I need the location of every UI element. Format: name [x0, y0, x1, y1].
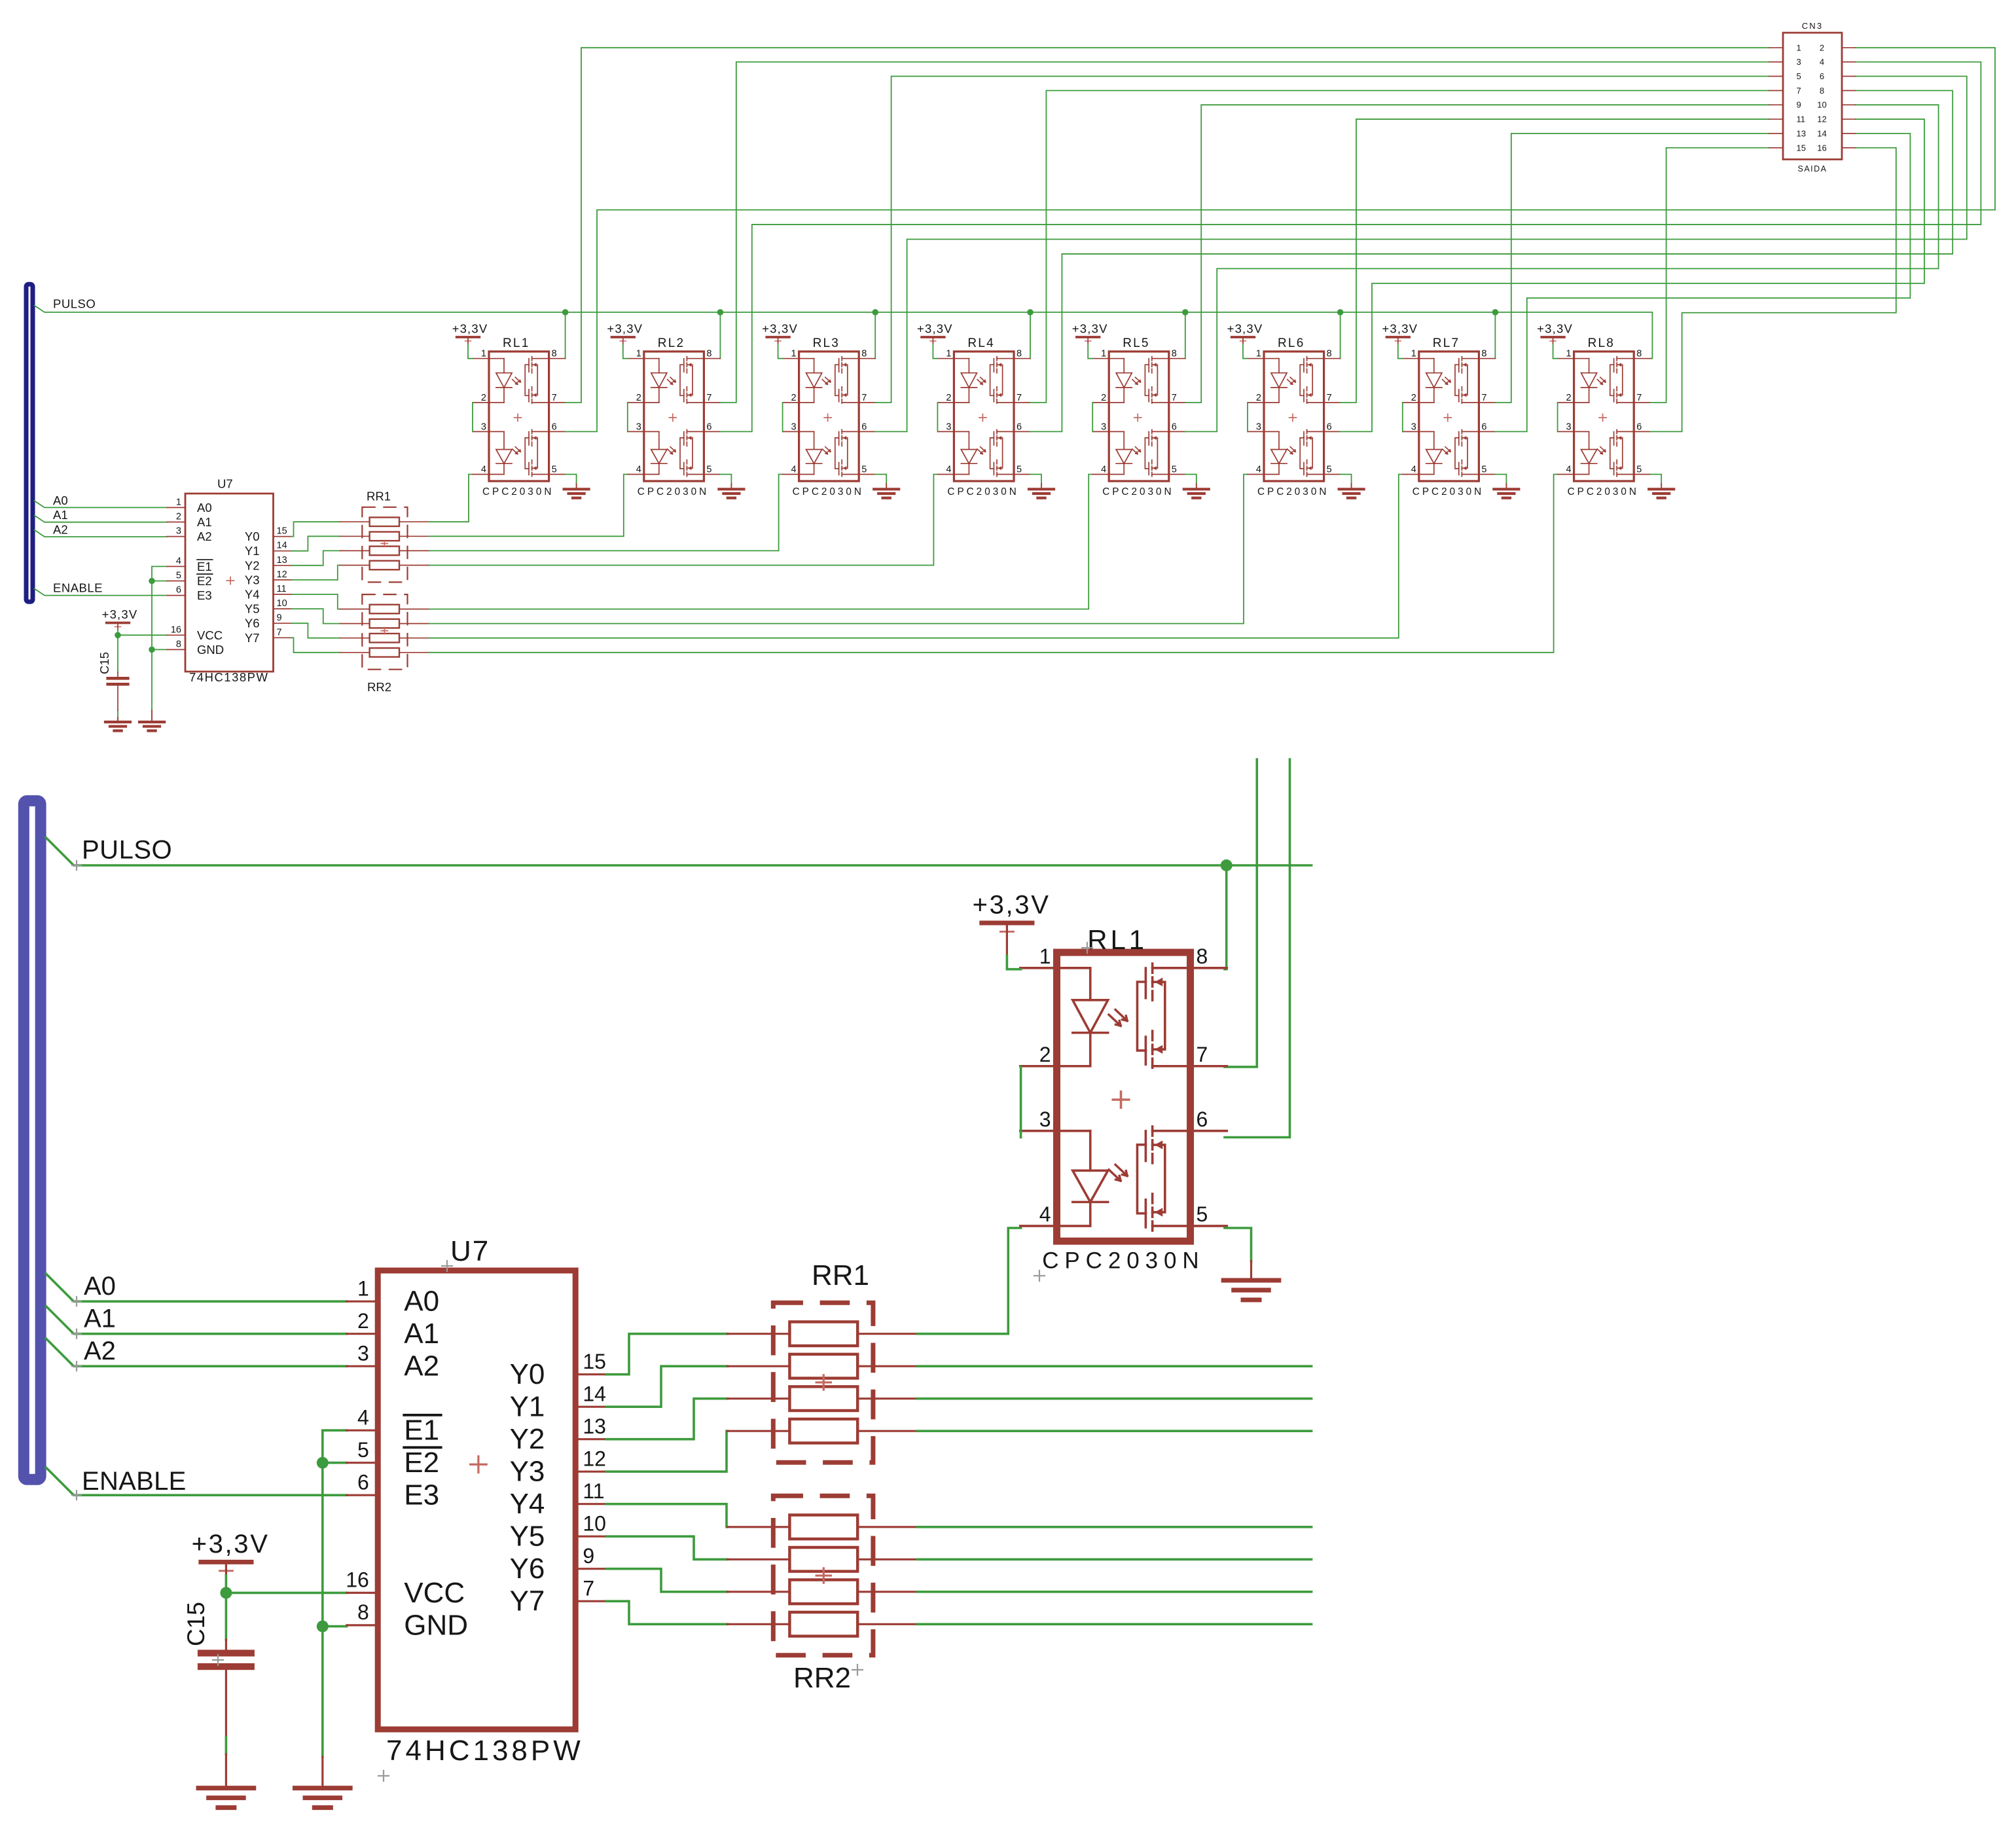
wire net Y7 U7 to RR (top) — [292, 638, 340, 653]
optocoupler relay RL8 (top) — [1558, 336, 1651, 497]
svg-text:Y4: Y4 — [510, 1488, 545, 1520]
wire net Y6 U7 to RR (bottom) — [606, 1569, 727, 1592]
svg-text:Y0: Y0 — [245, 530, 260, 543]
svg-text:8: 8 — [706, 349, 711, 359]
svg-text:2: 2 — [357, 1309, 369, 1333]
wire net Y5 U7 to RR (bottom) — [606, 1536, 727, 1559]
svg-text:RL1: RL1 — [1087, 924, 1147, 955]
ground G1 under C15 (top) — [105, 717, 130, 730]
optocoupler relay RL2 (top) — [628, 336, 721, 497]
wire RL6 pin7 to CN3 (top) — [1341, 119, 1769, 403]
wire PULSO drop to RL7 pin8 (top) — [1494, 312, 1496, 359]
wire C15 top lead (top) — [117, 635, 118, 672]
svg-text:Y6: Y6 — [510, 1553, 545, 1585]
connector CN3 (top) — [1769, 33, 1856, 160]
svg-text:8: 8 — [1636, 349, 1642, 359]
wire E1-E2-GND tie (bottom) — [323, 1430, 347, 1757]
C15 upper stub (top) — [117, 672, 118, 677]
wire +3,3V to RL1 pin1 (bottom) — [1007, 956, 1020, 969]
resistor network RR2 (top) — [340, 594, 429, 694]
svg-text:RR1: RR1 — [812, 1259, 869, 1291]
wire net Y3 U7 to RR (top) — [292, 566, 340, 580]
svg-text:12: 12 — [583, 1447, 606, 1470]
wire RL4 pins2-3 jumper (top) — [937, 403, 938, 431]
optocoupler relay RL7 (top) — [1403, 336, 1496, 497]
wire net A0 from bus to U7 (top) — [35, 501, 167, 507]
svg-text:16: 16 — [171, 624, 181, 635]
wire RL8 pins2-3 jumper (top) — [1557, 403, 1558, 431]
wire net Y1 U7 to RR (bottom) — [606, 1366, 727, 1407]
wire RL5 pin7 to CN3 (top) — [1185, 105, 1769, 403]
+3,3V supply PS7 at RL7 (top) — [1382, 322, 1418, 345]
svg-text:2: 2 — [1101, 393, 1106, 403]
svg-text:4: 4 — [481, 465, 486, 475]
svg-text:2: 2 — [1411, 393, 1416, 403]
ground G4 at RL2 (top) — [719, 484, 744, 498]
wire RL3 pin5 to ground (top) — [875, 475, 886, 484]
svg-text:6: 6 — [1017, 422, 1022, 432]
svg-text:15: 15 — [583, 1350, 606, 1373]
svg-text:3: 3 — [176, 526, 181, 537]
wire net R1 RR output to RL2 pin4 (top) — [429, 475, 628, 537]
wire +3,3V to RL6 pin1 (top) — [1243, 344, 1248, 359]
wire RL4 pin7 to CN3 (top) — [1030, 90, 1769, 403]
wire RL3 pin7 to CN3 (top) — [875, 77, 1769, 403]
svg-text:7: 7 — [1327, 393, 1332, 403]
capacitor C15 (top) — [98, 652, 130, 686]
svg-text:Y7: Y7 — [510, 1585, 545, 1617]
+3,3V supply PS1 at RL1 (bottom) — [973, 891, 1051, 956]
svg-text:CPC2030N: CPC2030N — [1257, 486, 1329, 497]
svg-text:13: 13 — [277, 555, 287, 566]
junction junction VCC (top) — [115, 632, 121, 639]
svg-text:5: 5 — [1327, 465, 1332, 475]
svg-text:+3,3V: +3,3V — [192, 1530, 270, 1559]
ground G3 at RL1 (bottom) — [1223, 1261, 1279, 1300]
ground G1 under C15 (bottom) — [198, 1754, 254, 1808]
wire net Y1 U7 to RR (top) — [292, 536, 340, 550]
svg-text:15: 15 — [1797, 143, 1806, 153]
svg-text:7: 7 — [1196, 1043, 1208, 1066]
wire net A2 from bus (bottom) — [46, 1339, 346, 1366]
svg-text:4: 4 — [946, 465, 951, 475]
junction junction GND pin (bottom) — [317, 1621, 329, 1632]
wire RL6 pins2-3 jumper (top) — [1247, 403, 1248, 431]
svg-text:5: 5 — [1481, 465, 1486, 475]
svg-text:1: 1 — [176, 497, 181, 507]
svg-text:2: 2 — [481, 393, 486, 403]
svg-text:E2: E2 — [197, 574, 212, 588]
svg-text:6: 6 — [552, 422, 557, 432]
+3,3V supply PS9 at C15 (top) — [102, 607, 138, 630]
ground G9 at RL7 (top) — [1494, 484, 1519, 498]
+3,3V supply PS1 at RL1 (top) — [452, 322, 488, 345]
svg-text:5: 5 — [1196, 1202, 1208, 1226]
junction PULSO junction (bottom) — [1221, 859, 1233, 871]
svg-text:2: 2 — [176, 512, 181, 522]
svg-text:11: 11 — [277, 584, 287, 594]
wire RL2 pin6 loop via CN3 (top) — [720, 62, 1981, 432]
svg-text:3: 3 — [1039, 1108, 1051, 1131]
wire PULSO from bus to RL8 pin8 (top) — [35, 306, 1653, 359]
svg-text:1: 1 — [1566, 349, 1572, 359]
wire net Y7 U7 to RR (bottom) — [606, 1601, 727, 1624]
resistor network RR1 (bottom) — [727, 1259, 917, 1462]
svg-text:A2: A2 — [197, 530, 212, 543]
svg-text:7: 7 — [1797, 86, 1801, 96]
svg-text:4: 4 — [636, 465, 641, 475]
svg-text:14: 14 — [1817, 128, 1826, 138]
svg-text:2: 2 — [1256, 393, 1261, 403]
svg-text:RL5: RL5 — [1123, 336, 1149, 350]
svg-text:6: 6 — [1327, 422, 1332, 432]
svg-text:A2: A2 — [404, 1350, 439, 1382]
wire RL1 pin5 to ground (top) — [566, 475, 577, 484]
svg-text:5: 5 — [357, 1438, 369, 1462]
svg-text:3: 3 — [946, 422, 951, 432]
svg-text:A1: A1 — [53, 508, 68, 522]
svg-text:7: 7 — [583, 1576, 594, 1600]
+3,3V supply PS3 at RL3 (top) — [762, 322, 798, 345]
svg-text:1: 1 — [1411, 349, 1416, 359]
svg-text:12: 12 — [277, 569, 287, 580]
ground G5 at RL3 (top) — [874, 484, 899, 498]
wire net R0 RR1 out to RL1 pin4 (bottom) — [918, 1228, 1021, 1334]
svg-text:C15: C15 — [183, 1602, 209, 1646]
wire PULSO drop to RL3 pin8 (top) — [874, 312, 876, 359]
svg-text:8: 8 — [1017, 349, 1022, 359]
svg-text:1: 1 — [1797, 43, 1801, 52]
svg-text:3: 3 — [1256, 422, 1261, 432]
origin cross PULSO (bottom) — [72, 861, 81, 870]
wire RL2 pin7 vertical (bottom) — [1225, 759, 1257, 1067]
svg-text:A0: A0 — [197, 501, 212, 514]
svg-text:5: 5 — [1172, 465, 1177, 475]
wire RL1 pins2-3 jumper (top) — [472, 403, 473, 431]
wire +3,3V to RL1 pin1 (top) — [468, 344, 473, 359]
wire net Y4 U7 to RR (top) — [292, 594, 340, 609]
svg-text:Y4: Y4 — [245, 588, 260, 602]
optocoupler relay RL3 (top) — [783, 336, 876, 497]
svg-text:+3,3V: +3,3V — [452, 322, 488, 336]
svg-text:3: 3 — [791, 422, 797, 432]
wire RL8 pin5 to ground (top) — [1650, 475, 1661, 484]
ground G2 for enable tie (top) — [139, 710, 164, 730]
svg-text:+3,3V: +3,3V — [1382, 322, 1418, 336]
svg-text:6: 6 — [176, 585, 181, 596]
svg-text:10: 10 — [277, 598, 287, 609]
svg-text:11: 11 — [1797, 115, 1806, 124]
wire RL7 pins2-3 jumper (top) — [1402, 403, 1403, 431]
svg-text:12: 12 — [1817, 115, 1826, 124]
origin cross C15 (bottom) — [213, 1655, 223, 1665]
wire RL1 pins2-3 jumper (bottom) — [1020, 1067, 1022, 1138]
svg-text:3: 3 — [1411, 422, 1416, 432]
svg-text:Y1: Y1 — [245, 544, 260, 558]
svg-text:RL7: RL7 — [1433, 336, 1460, 350]
svg-text:+3,3V: +3,3V — [1072, 322, 1108, 336]
origin cross ENABLE (bottom) — [72, 1490, 81, 1500]
svg-text:2: 2 — [946, 393, 951, 403]
wire PULSO drop to RL2 pin8 (top) — [719, 312, 721, 359]
wire net Y2 U7 to RR (top) — [292, 550, 340, 565]
svg-text:1: 1 — [1039, 945, 1051, 968]
wire VCC wire (top) — [118, 630, 167, 635]
svg-text:Y2: Y2 — [245, 558, 260, 572]
+3,3V supply PS9 at C15 (bottom) — [192, 1530, 270, 1578]
wire +3,3V to RL8 pin1 (top) — [1553, 344, 1558, 359]
svg-text:ENABLE: ENABLE — [82, 1467, 187, 1496]
svg-text:CN3: CN3 — [1802, 21, 1824, 31]
svg-text:CPC2030N: CPC2030N — [947, 486, 1018, 497]
svg-text:8: 8 — [1820, 86, 1824, 96]
wire RL1 pin5 to ground (bottom) — [1225, 1228, 1251, 1261]
optocoupler relay RL4 (top) — [937, 336, 1030, 497]
svg-text:Y3: Y3 — [510, 1456, 545, 1488]
svg-text:2: 2 — [791, 393, 797, 403]
bus B1 (top) — [26, 284, 33, 602]
C15 upper stub (bottom) — [225, 1640, 227, 1650]
wire net Y3 U7 to RR (bottom) — [606, 1431, 727, 1471]
wire RL2 pin5 to ground (top) — [720, 475, 731, 484]
wire RL2 pin7 to CN3 (top) — [720, 62, 1769, 403]
wire net R6 RR output to RL7 pin4 (top) — [429, 475, 1403, 638]
svg-text:10: 10 — [1817, 100, 1826, 110]
svg-text:9: 9 — [583, 1544, 594, 1568]
wire net R2 RR out heading right (bottom) — [918, 1397, 1312, 1400]
wire E1-E2-GND tie (top) — [152, 566, 167, 710]
svg-text:E3: E3 — [404, 1479, 439, 1511]
svg-text:2: 2 — [1820, 43, 1824, 52]
wire net Y0 U7 to RR (top) — [292, 522, 340, 536]
svg-text:8: 8 — [176, 639, 181, 649]
svg-text:6: 6 — [1636, 422, 1642, 432]
wire RL2 pins2-3 jumper (top) — [627, 403, 628, 431]
wire net Y2 U7 to RR (bottom) — [606, 1399, 727, 1439]
svg-text:E1: E1 — [404, 1415, 439, 1447]
svg-text:7: 7 — [552, 393, 557, 403]
svg-text:6: 6 — [1172, 422, 1177, 432]
+3,3V supply PS8 at RL8 (top) — [1537, 322, 1573, 345]
wire PULSO from bus (bottom) — [46, 838, 1311, 865]
svg-text:4: 4 — [1566, 465, 1572, 475]
ground G6 at RL4 (top) — [1029, 484, 1054, 498]
svg-text:16: 16 — [346, 1568, 369, 1591]
svg-text:RL6: RL6 — [1278, 336, 1305, 350]
svg-text:9: 9 — [277, 613, 282, 623]
svg-text:1: 1 — [481, 349, 486, 359]
wire RL2 pin6 vertical (bottom) — [1225, 759, 1290, 1138]
svg-text:8: 8 — [1327, 349, 1332, 359]
svg-text:PULSO: PULSO — [53, 297, 96, 311]
svg-text:1: 1 — [946, 349, 951, 359]
svg-text:E3: E3 — [197, 588, 212, 602]
svg-text:CPC2030N: CPC2030N — [482, 486, 554, 497]
svg-text:3: 3 — [1101, 422, 1106, 432]
svg-text:GND: GND — [404, 1609, 468, 1641]
origin cross 74HC138PW (bottom) — [378, 1771, 389, 1781]
svg-text:14: 14 — [277, 541, 287, 551]
wire +3,3V to RL5 pin1 (top) — [1088, 344, 1092, 359]
wire RL4 pin6 loop via CN3 (top) — [1030, 90, 1953, 431]
svg-text:A1: A1 — [404, 1318, 439, 1350]
svg-text:7: 7 — [861, 393, 867, 403]
optocoupler relay RL5 (top) — [1092, 336, 1185, 497]
ground G3 at RL1 (top) — [564, 484, 589, 498]
svg-text:4: 4 — [1411, 465, 1416, 475]
origin cross RL1 (bottom) — [1082, 943, 1092, 953]
optocoupler relay RL1 (top) — [473, 336, 566, 497]
svg-text:7: 7 — [277, 627, 282, 638]
svg-text:5: 5 — [861, 465, 867, 475]
wire RL6 pin6 loop via CN3 (top) — [1341, 119, 1924, 431]
svg-text:RR1: RR1 — [367, 489, 391, 503]
svg-text:13: 13 — [583, 1415, 606, 1438]
svg-text:+3,3V: +3,3V — [762, 322, 798, 336]
junction junction E2 (top) — [149, 578, 155, 585]
svg-text:5: 5 — [552, 465, 557, 475]
svg-text:5: 5 — [176, 571, 181, 581]
svg-text:RL3: RL3 — [813, 336, 840, 350]
svg-text:74HC138PW: 74HC138PW — [386, 1735, 584, 1767]
junction PULSO junction at RL1 (top) — [562, 309, 569, 316]
svg-text:A1: A1 — [84, 1305, 116, 1333]
junction junction VCC (bottom) — [220, 1587, 232, 1598]
svg-text:3: 3 — [1566, 422, 1572, 432]
svg-text:PULSO: PULSO — [82, 836, 172, 865]
svg-text:15: 15 — [277, 526, 287, 537]
optocoupler relay RL6 (top) — [1248, 336, 1341, 497]
resistor network RR2 (bottom) — [727, 1496, 917, 1694]
svg-text:RL8: RL8 — [1588, 336, 1615, 350]
wire net R0 RR output to RL1 pin4 (top) — [429, 475, 473, 522]
junction PULSO junction at RL6 (top) — [1337, 309, 1344, 316]
svg-text:CPC2030N: CPC2030N — [1568, 486, 1639, 497]
wire RL3 pins2-3 jumper (top) — [782, 403, 783, 431]
wire RL1 pin6 loop via CN3 (top) — [566, 48, 1995, 432]
svg-text:3: 3 — [636, 422, 641, 432]
wire net R5 RR out heading right (bottom) — [918, 1559, 1312, 1561]
wire net R7 RR output to RL8 pin4 (top) — [429, 475, 1558, 653]
ground G2 enable tie (bottom) — [295, 1757, 350, 1808]
ground G10 at RL8 (top) — [1649, 484, 1674, 498]
junction PULSO junction at RL2 (top) — [717, 309, 724, 316]
svg-text:4: 4 — [1820, 57, 1824, 67]
capacitor C15 (bottom) — [183, 1602, 255, 1670]
svg-text:A2: A2 — [53, 523, 68, 537]
wire RL5 pin6 loop via CN3 (top) — [1185, 105, 1939, 431]
svg-text:+3,3V: +3,3V — [973, 891, 1051, 920]
origin cross RR2 (bottom) — [852, 1665, 863, 1675]
svg-text:7: 7 — [1481, 393, 1486, 403]
junction PULSO junction at RL5 (top) — [1182, 309, 1189, 316]
wire RL7 pin7 to CN3 (top) — [1495, 134, 1769, 403]
+3,3V supply PS2 at RL2 (top) — [607, 322, 643, 345]
svg-text:A0: A0 — [404, 1286, 439, 1318]
svg-text:1: 1 — [357, 1276, 369, 1300]
svg-text:3: 3 — [357, 1341, 369, 1365]
wire PULSO drop to RL6 pin8 (top) — [1340, 312, 1341, 359]
resistor network RR1 (top) — [340, 489, 429, 582]
ground G8 at RL6 (top) — [1339, 484, 1364, 498]
svg-text:6: 6 — [861, 422, 867, 432]
wire net R5 RR output to RL6 pin4 (top) — [429, 475, 1248, 624]
svg-text:4: 4 — [791, 465, 797, 475]
svg-text:2: 2 — [636, 393, 641, 403]
origin cross CPC2030N (bottom) — [1034, 1271, 1045, 1281]
wire net A1 from bus to U7 (top) — [35, 516, 167, 522]
svg-text:9: 9 — [1797, 100, 1801, 110]
wire RL8 pin6 loop via CN3 (top) — [1650, 148, 1896, 432]
svg-text:RL1: RL1 — [503, 336, 530, 350]
svg-text:6: 6 — [1820, 71, 1824, 81]
svg-text:16: 16 — [1817, 143, 1826, 153]
wire RL7 pin6 loop via CN3 (top) — [1495, 134, 1910, 432]
svg-text:8: 8 — [1172, 349, 1177, 359]
svg-text:8: 8 — [1481, 349, 1486, 359]
svg-text:5: 5 — [706, 465, 711, 475]
svg-text:4: 4 — [1039, 1202, 1051, 1226]
svg-text:SAIDA: SAIDA — [1797, 164, 1827, 173]
svg-text:U7: U7 — [450, 1235, 490, 1267]
wire net ENABLE from bus (bottom) — [46, 1468, 346, 1495]
svg-text:+3,3V: +3,3V — [1537, 322, 1573, 336]
svg-text:1: 1 — [1256, 349, 1261, 359]
wire RL5 pins2-3 jumper (top) — [1092, 403, 1093, 431]
svg-text:8: 8 — [1196, 945, 1208, 968]
wire RL3 pin6 loop via CN3 (top) — [875, 77, 1967, 432]
svg-text:Y2: Y2 — [510, 1423, 545, 1455]
wire RL6 pin5 to ground (top) — [1341, 475, 1352, 484]
wire net R6 RR out heading right (bottom) — [918, 1591, 1312, 1593]
svg-text:+3,3V: +3,3V — [1227, 322, 1263, 336]
svg-text:4: 4 — [357, 1405, 369, 1429]
svg-text:Y6: Y6 — [245, 617, 260, 630]
wire RL4 pin5 to ground (top) — [1030, 475, 1041, 484]
svg-text:GND: GND — [197, 643, 224, 657]
svg-text:7: 7 — [1172, 393, 1177, 403]
svg-text:5: 5 — [1797, 71, 1801, 81]
svg-text:Y5: Y5 — [245, 602, 260, 616]
svg-text:3: 3 — [1797, 57, 1801, 67]
wire PULSO drop to RL4 pin8 (top) — [1030, 312, 1031, 359]
svg-text:5: 5 — [1017, 465, 1022, 475]
decoder U7 74HC138PW (top) — [167, 494, 292, 672]
svg-text:CPC2030N: CPC2030N — [1042, 1248, 1204, 1273]
wire net R1 RR out heading right (bottom) — [918, 1365, 1312, 1367]
origin cross U7 (bottom) — [442, 1261, 452, 1271]
svg-text:RR2: RR2 — [793, 1662, 851, 1694]
svg-text:6: 6 — [1196, 1108, 1208, 1131]
wire +3,3V to RL3 pin1 (top) — [778, 344, 783, 359]
svg-text:1: 1 — [1101, 349, 1106, 359]
svg-text:4: 4 — [1256, 465, 1261, 475]
ground G7 at RL5 (top) — [1184, 484, 1209, 498]
svg-text:E2: E2 — [404, 1447, 439, 1479]
svg-text:7: 7 — [1017, 393, 1022, 403]
svg-text:6: 6 — [357, 1470, 369, 1494]
junction PULSO junction at RL7 (top) — [1492, 309, 1499, 316]
svg-text:U7: U7 — [217, 477, 233, 491]
+3,3V supply PS5 at RL5 (top) — [1072, 322, 1108, 345]
wire C15 bottom lead (top) — [117, 710, 118, 717]
svg-text:2: 2 — [1039, 1043, 1051, 1066]
svg-text:1: 1 — [791, 349, 797, 359]
wire RL7 pin5 to ground (top) — [1495, 475, 1506, 484]
optocoupler relay RL1 (bottom) — [1020, 924, 1227, 1273]
svg-text:RL2: RL2 — [658, 336, 685, 350]
svg-text:Y1: Y1 — [510, 1391, 545, 1423]
